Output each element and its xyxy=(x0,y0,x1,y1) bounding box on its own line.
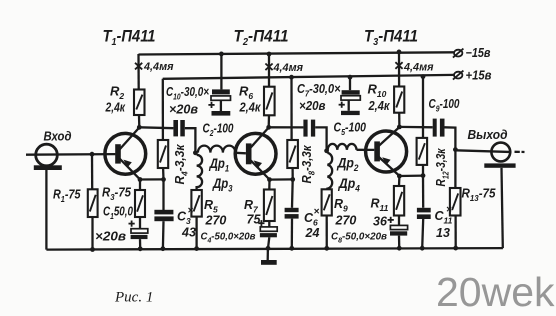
inductor Dr4 (shunt peaking) xyxy=(327,153,332,189)
svg-text:2,4к: 2,4к xyxy=(105,101,126,115)
wire R13 top lead xyxy=(454,150,456,188)
svg-text:43: 43 xyxy=(181,226,196,240)
node R4/C3 junction xyxy=(161,177,166,182)
svg-text:270: 270 xyxy=(205,214,227,228)
svg-text:36: 36 xyxy=(373,215,388,229)
transistor T2 xyxy=(235,128,276,180)
wire C6 top lead xyxy=(291,179,294,207)
wire R12 feed from +15v rail xyxy=(422,77,424,138)
wire C4 to ground bus xyxy=(268,237,269,248)
terminal -15v xyxy=(453,49,464,58)
node C8 ground xyxy=(397,246,402,251)
node interstage 1 xyxy=(193,150,198,155)
ground xyxy=(261,248,277,265)
node T2 collector xyxy=(266,125,271,130)
node R8 rail xyxy=(289,75,294,80)
svg-text:2,4к: 2,4к xyxy=(239,101,261,115)
wire input line xyxy=(26,153,115,156)
wire C3 top lead xyxy=(162,179,164,210)
wire R2 to collector node xyxy=(138,115,141,127)
wire R8 feed from +15v rail xyxy=(290,77,292,140)
wire output line xyxy=(455,150,511,152)
svg-text:−15в: −15в xyxy=(466,46,491,60)
wire emitter bus stage2 xyxy=(270,178,293,181)
svg-text:×20в: ×20в xyxy=(299,99,326,113)
node input / R1 junction xyxy=(90,152,95,157)
svg-text:Т2-П411: Т2-П411 xyxy=(234,28,289,49)
svg-text:×: × xyxy=(314,207,320,218)
resistor R1 xyxy=(88,189,98,217)
wire R2 feed from -15v rail with choke xyxy=(137,54,139,90)
capacitor C5 xyxy=(303,120,315,137)
wire R1 bottom lead xyxy=(91,217,93,250)
transistor T1 xyxy=(105,128,146,180)
wire R4 bottom lead xyxy=(162,168,165,179)
svg-text:20wek: 20wek xyxy=(436,269,555,315)
wire R7 to C4 xyxy=(268,221,270,227)
capacitor C11 xyxy=(417,208,431,219)
svg-text:75: 75 xyxy=(247,213,262,227)
wire R4 feed from +15v rail xyxy=(162,79,164,140)
power rail +15v xyxy=(163,75,454,79)
choke 4,4 stage2 xyxy=(265,64,272,71)
resistor R13 xyxy=(450,188,461,216)
node C3 ground xyxy=(161,246,166,251)
wire emitter bus stage3 xyxy=(399,174,423,177)
power rail -15v xyxy=(139,52,454,54)
capacitor C7 (feedthrough electrolytic) xyxy=(339,78,361,116)
wire C11 top lead xyxy=(422,176,425,208)
input connector xyxy=(34,144,62,170)
node C1 ground xyxy=(138,246,143,251)
capacitor C9 xyxy=(433,119,445,137)
node R13 ground xyxy=(453,246,458,251)
node R1 ground xyxy=(90,247,95,252)
node C11 ground xyxy=(420,246,425,251)
wire Dr2 to T3 base xyxy=(357,149,375,151)
capacitor C3 xyxy=(154,210,173,221)
svg-text:13: 13 xyxy=(436,226,450,240)
choke 4,4 stage1 xyxy=(135,63,142,70)
wire R13 to ground bus xyxy=(454,216,456,249)
wire R10 to collector node xyxy=(398,113,400,127)
resistor R8 xyxy=(287,140,298,168)
node interstage 2 xyxy=(324,148,329,153)
capacitor C2 xyxy=(173,120,184,136)
wire R11 top lead xyxy=(398,176,401,186)
wire R1 top lead xyxy=(91,154,93,189)
svg-text:+15в: +15в xyxy=(466,68,492,82)
ground bus (bottom rail) xyxy=(46,248,503,250)
capacitor C8 (electrolytic) xyxy=(388,217,408,236)
wire C6 to ground bus xyxy=(291,219,294,249)
wire C9 to output node xyxy=(445,127,456,149)
svg-text:Т1-П411: Т1-П411 xyxy=(103,28,156,49)
wire R11 to C8 xyxy=(398,216,400,226)
resistor R7 xyxy=(264,190,275,222)
node R12/C11 junction xyxy=(421,173,426,178)
wire R3 top lead xyxy=(139,180,141,191)
resistor R2 xyxy=(134,90,145,116)
wire collector to C5 xyxy=(269,126,304,128)
wire collector to C9 xyxy=(399,126,432,129)
inductor Dr1 (series peaking) xyxy=(198,146,236,153)
resistor R9 xyxy=(322,189,332,215)
svg-text:Выход: Выход xyxy=(468,128,508,142)
wire collector to C2 xyxy=(139,126,173,129)
wire R6 to collector node xyxy=(268,115,271,127)
node C10 rail xyxy=(219,52,224,57)
wire input shield down xyxy=(45,170,47,250)
wire R3 to C1 xyxy=(139,217,141,229)
svg-text:4,4мя: 4,4мя xyxy=(143,61,174,73)
svg-text:4,4мя: 4,4мя xyxy=(273,62,304,74)
svg-text:2,4к: 2,4к xyxy=(368,99,390,113)
node R8/C6 junction xyxy=(290,177,295,182)
node R10 rail xyxy=(397,50,402,55)
node R12 rail xyxy=(421,74,426,79)
output connector xyxy=(484,143,515,168)
svg-text:4,4мя: 4,4мя xyxy=(403,62,434,74)
wire C2 to coil corner xyxy=(185,128,196,153)
resistor R6 xyxy=(264,87,275,116)
node T3 emitter xyxy=(397,174,402,179)
wire R5 to ground bus xyxy=(195,217,197,249)
wire C8 to ground bus xyxy=(398,236,401,249)
node R9 ground xyxy=(324,246,329,251)
svg-text:×: × xyxy=(446,205,452,216)
wire output shield down xyxy=(502,168,503,248)
inductor Dr3 (shunt peaking) xyxy=(197,155,203,190)
terminal +15v xyxy=(453,71,464,80)
wire emitter bus stage1 xyxy=(140,178,164,180)
node T2 emitter xyxy=(267,177,272,182)
resistor R10 xyxy=(394,87,404,113)
svg-text:Вход: Вход xyxy=(44,130,72,144)
svg-text:Рис. 1: Рис. 1 xyxy=(114,290,153,306)
resistor R3 xyxy=(135,190,145,217)
transistor T3 xyxy=(366,127,407,176)
capacitor C10 (feedthrough electrolytic) xyxy=(208,54,230,115)
wire R7 top lead xyxy=(268,180,271,190)
wire R9 to ground bus xyxy=(326,216,328,249)
capacitor C4 (electrolytic) xyxy=(258,220,277,237)
wire output stub dashes xyxy=(515,151,525,153)
svg-text:×20в: ×20в xyxy=(169,103,198,117)
wire C3 to ground bus xyxy=(162,221,165,248)
wire R8 bottom lead xyxy=(291,168,293,179)
node T1 collector xyxy=(137,125,142,130)
svg-text:24: 24 xyxy=(305,226,320,240)
capacitor C6 xyxy=(285,208,299,219)
wire R10 feed from -15v rail with choke xyxy=(398,52,400,87)
node R6 rail xyxy=(267,52,272,57)
resistor R4 xyxy=(158,140,168,168)
svg-text:270: 270 xyxy=(335,214,357,228)
wire Dr1 to T2 base xyxy=(235,152,246,155)
node R5 ground xyxy=(194,246,199,251)
node T1 emitter xyxy=(138,177,143,182)
wire R6 feed from -15v rail with choke xyxy=(268,54,270,87)
resistor R12 xyxy=(417,138,428,165)
wire C11 to ground bus xyxy=(422,219,423,248)
node C7 rail xyxy=(348,75,353,80)
node T3 collector xyxy=(397,125,402,130)
resistor R11 xyxy=(394,186,404,216)
wire C5 to coil corner xyxy=(315,127,326,150)
wire C1 to ground bus xyxy=(139,239,141,248)
svg-text:×: × xyxy=(188,206,194,217)
resistor R5 xyxy=(191,190,201,217)
inductor Dr2 (series peaking) xyxy=(328,144,357,150)
node output junction xyxy=(453,147,458,152)
node C4 ground xyxy=(266,246,271,251)
capacitor C1 (electrolytic) xyxy=(129,221,148,240)
choke 4,4 stage3 xyxy=(395,62,402,69)
wire R12 bottom lead xyxy=(422,165,424,176)
svg-text:×20в: ×20в xyxy=(95,230,126,244)
node C6 ground xyxy=(289,246,294,251)
svg-text:Т3-П411: Т3-П411 xyxy=(364,28,418,49)
